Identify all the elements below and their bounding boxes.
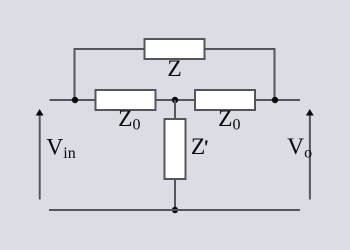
svg-text:Z: Z	[167, 56, 181, 82]
Vo arrow shaft	[309, 114, 311, 200]
node A junction dot	[72, 97, 78, 103]
impedance Z0 left series box	[96, 90, 156, 110]
node G junction dot (bottom)	[172, 207, 178, 213]
Vin arrowhead	[36, 109, 44, 116]
wire: shunt upper segment	[174, 100, 176, 119]
Vin arrow shaft	[39, 114, 41, 200]
node M junction dot (middle)	[172, 97, 178, 103]
wire: input lead to first Z0	[50, 99, 96, 101]
wire: shunt lower segment	[174, 179, 176, 210]
Vo arrowhead	[306, 109, 314, 116]
wire: top bridge right segment	[205, 48, 276, 50]
prime mark of Z'	[205, 141, 208, 146]
impedance Z0 right series box	[195, 90, 255, 110]
wire: top-left vertical from node A up to bridge	[74, 49, 76, 100]
impedance Z (bridge resistor box)	[145, 39, 205, 59]
wire: top bridge left segment	[74, 48, 145, 50]
wire: between Z0 boxes	[156, 99, 196, 101]
impedance Z' shunt box	[165, 119, 186, 179]
wire: bottom rail	[49, 209, 300, 211]
node B junction dot	[272, 97, 278, 103]
wire: top-right vertical from bridge down to node B	[274, 49, 276, 100]
wire: output lead from second Z0	[255, 99, 300, 101]
svg-text:Z: Z	[191, 134, 205, 160]
